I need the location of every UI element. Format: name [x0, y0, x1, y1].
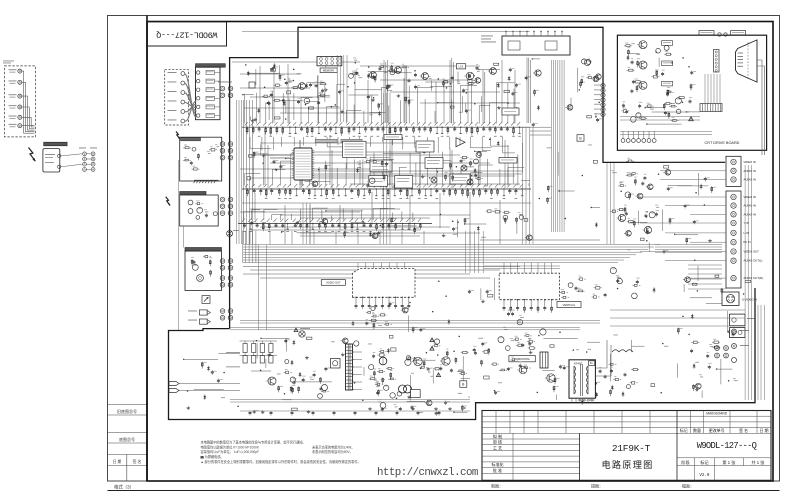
wire from jack J5	[22, 117, 35, 127]
AV jack group2 VIDEO IN	[731, 194, 736, 199]
filter box Z202	[384, 135, 402, 140]
op-amp N302	[456, 138, 465, 147]
AV jack group2 AUDIO IN	[731, 203, 736, 208]
top row cluster 2	[429, 77, 432, 80]
east-west cluster	[634, 284, 637, 286]
mixer symbol X2	[431, 177, 437, 183]
long vertical wires mid	[522, 127, 524, 244]
secondary rectifier cluster	[369, 364, 374, 369]
transistor V102	[395, 67, 402, 74]
AV jack J3	[18, 94, 22, 98]
RGB out label 3	[662, 81, 673, 86]
vertical section parts	[504, 328, 507, 331]
ext jack 2	[732, 344, 737, 349]
svg-text:AUDIO OUT(R): AUDIO OUT(R)	[744, 276, 763, 280]
cluster right of memory	[349, 73, 354, 78]
LCK label box	[456, 64, 465, 69]
svg-text:AUDIO IN: AUDIO IN	[744, 212, 756, 216]
svg-text:本电路图中的数值仅为了基本电路的改良与专用设计变更，恕不另行: 本电路图中的数值仅为了基本电路的改良与专用设计变更，恕不另行通知。	[201, 440, 306, 445]
AC input plug 1	[169, 382, 179, 386]
CRT amp input cluster 1	[626, 45, 630, 47]
AV area feed wires	[640, 196, 726, 198]
ladder row1 risers	[243, 94, 245, 124]
svg-text:VIDEO IN: VIDEO IN	[744, 160, 756, 164]
component ladder row 1 (IF/video bus)	[242, 126, 530, 128]
svg-text:幅面：: 幅面：	[682, 483, 694, 489]
AV sub jack 5	[181, 110, 185, 114]
audio amp pins	[355, 297, 357, 304]
horizontal interconnects	[232, 61, 360, 63]
block pin P3	[197, 88, 200, 91]
block pin P4	[197, 97, 200, 100]
posistor box	[411, 390, 421, 398]
board connector XS2/XP2	[220, 142, 225, 147]
SMPS transformer T801 body	[346, 344, 353, 390]
stage row line	[677, 457, 771, 459]
line filter caps row 2	[243, 356, 247, 364]
B+ boxed label 2	[460, 381, 467, 388]
filter box Z201	[343, 141, 366, 157]
T801 core lines	[347, 344, 349, 390]
svg-text:拟 制: 拟 制	[493, 433, 502, 439]
focus screen wires	[757, 60, 762, 155]
title block outer box	[482, 411, 771, 481]
svg-text:工 艺: 工 艺	[493, 445, 502, 450]
svg-text:阶段: 阶段	[681, 459, 690, 466]
safety triangle 3	[436, 373, 440, 377]
component ladder row 3	[238, 223, 432, 225]
svg-text:HORIZONTAL: HORIZONTAL	[514, 358, 531, 361]
box N306	[395, 176, 413, 189]
top bus wires	[242, 31, 530, 33]
speaker output connector	[730, 328, 746, 338]
delay line cluster	[462, 157, 466, 159]
VERTICAL label box	[557, 302, 581, 308]
degauss posistor circles	[399, 385, 407, 393]
AV buffer transistor V602	[644, 226, 651, 233]
wire from jack J1	[22, 71, 35, 133]
svg-text:容量值均以uF为单位。 1uF=1,000,000pF: 容量值均以uF为单位。 1uF=1,000,000pF	[201, 449, 260, 454]
ext jack 3	[732, 358, 737, 363]
power top rails	[230, 327, 580, 329]
svg-text:底图总号: 底图总号	[119, 436, 135, 442]
long vertical wires center	[258, 245, 260, 330]
CRT board lower cluster 1	[623, 110, 627, 113]
left vertical trunk wires	[236, 100, 238, 244]
component group tuner support	[537, 105, 539, 110]
component group AC inlet filter	[221, 396, 225, 399]
switcher transistor V801	[268, 377, 276, 385]
left strip tiny header label	[3, 60, 14, 63]
AV jack group2 AUDIO IN	[731, 212, 736, 217]
HORIZONTAL label box	[509, 356, 535, 362]
horizontal cluster parts	[505, 346, 510, 351]
regulator V803	[442, 357, 450, 365]
stage row lower line	[677, 465, 771, 467]
AV sub jack 2	[181, 81, 185, 85]
power bottom parts	[249, 411, 251, 413]
FBT primary winding	[573, 366, 575, 394]
svg-text:LCK: LCK	[459, 65, 464, 68]
svg-text:标记: 标记	[680, 427, 688, 433]
bottom distribution wires	[230, 399, 470, 401]
ladder row right cluster	[504, 217, 506, 224]
component group AV buffers	[663, 250, 665, 252]
svg-text:共 1 张: 共 1 张	[751, 459, 765, 466]
transit switch label 2	[731, 31, 746, 35]
svg-text:制图：: 制图：	[491, 483, 503, 489]
crt socket strip	[714, 50, 720, 73]
AUDIO OUT label box	[321, 280, 345, 286]
component group SMPS primary	[293, 340, 295, 345]
AV input dashed box (outside frame)	[4, 66, 35, 137]
CRT board bottom connector row	[621, 139, 625, 143]
svg-text:W9ODL-127---Q: W9ODL-127---Q	[697, 441, 757, 451]
top row cluster 3	[469, 83, 474, 85]
component group sub board 2	[215, 170, 218, 172]
CRT amp output resistor row 2	[653, 76, 657, 78]
title block main vertical divider	[676, 411, 678, 481]
long mid-band horizontal wires	[260, 142, 430, 144]
left margin row lines	[108, 404, 148, 406]
board connector XS6	[220, 309, 225, 314]
component group secondary filter	[468, 396, 470, 398]
power ground symbols	[369, 407, 371, 409]
power switch block body	[43, 149, 60, 172]
bridge rectifier cluster	[285, 360, 289, 364]
lightning surge symbol 3	[166, 197, 170, 206]
svg-text:签 名: 签 名	[739, 427, 748, 433]
ladder row3 risers	[243, 212, 245, 220]
svg-text:签 名: 签 名	[133, 459, 142, 464]
svg-text:描图：: 描图：	[591, 483, 603, 489]
CRT tube funnel	[736, 40, 758, 82]
svg-text:审 核: 审 核	[493, 439, 502, 445]
svg-text:电阻值均以欧姆为单位 K=1000 M=1000K: 电阻值均以欧姆为单位 K=1000 M=1000K	[201, 444, 260, 449]
transistor V103	[422, 73, 429, 80]
board connector XS4	[220, 259, 225, 264]
svg-text:AUDIO IN: AUDIO IN	[744, 204, 756, 208]
FBT pins bottom	[571, 398, 573, 403]
bottom format strip line	[108, 490, 780, 492]
flyback transformer AT402 outline	[569, 360, 595, 398]
svg-text:http://cnwxzl.com: http://cnwxzl.com	[377, 467, 478, 479]
yoke connector right	[715, 346, 720, 351]
AV jack group2 U IN	[731, 230, 736, 235]
revision table horizontal lines	[482, 415, 771, 417]
lightning surge symbol 2	[176, 132, 180, 139]
svg-text:电路原理图: 电路原理图	[602, 459, 654, 470]
component group video section	[348, 94, 378, 96]
svg-text:AUDIO OUT(L): AUDIO OUT(L)	[744, 259, 763, 263]
svg-text:AT402: AT402	[574, 362, 583, 366]
model number box top-left	[148, 22, 227, 46]
component group power entry	[205, 208, 209, 211]
svg-text:格式（3）: 格式（3）	[114, 484, 134, 491]
vertical interconnects rows	[259, 66, 261, 123]
box N304	[499, 158, 517, 164]
AV buffer cluster 1	[634, 179, 636, 186]
piezo speaker icon	[202, 296, 210, 304]
gray label strip 2	[341, 139, 362, 142]
memory IC VM1 AT04CM label	[320, 57, 334, 60]
hdrive transistor V401	[519, 366, 527, 374]
component group audio supply	[448, 319, 450, 324]
trunk wires into vertical block	[484, 265, 560, 267]
vertical IC pins	[503, 300, 505, 306]
fuse F801	[227, 231, 233, 237]
right trunk vertical wires	[606, 163, 608, 244]
left margin cell divider	[126, 455, 128, 482]
svg-text:标准化: 标准化	[491, 461, 503, 467]
AV jack group2 AUDIO OUT(R)	[731, 275, 736, 280]
block pin P1	[197, 71, 200, 74]
ext jack 1	[732, 329, 737, 334]
component group video amp	[451, 177, 453, 179]
optocoupler N801	[331, 359, 341, 369]
CRT amp input cluster 3	[631, 89, 633, 91]
screen lead	[595, 345, 611, 376]
right vertical bus to CRT	[551, 60, 553, 232]
AV jack group2 Y IN	[731, 220, 736, 225]
horizontal link wires upper	[530, 126, 551, 128]
component group mute switch	[494, 278, 496, 300]
component group sync section	[497, 83, 499, 88]
svg-text:AUDIO IN: AUDIO IN	[744, 178, 756, 182]
transit switch label 1	[699, 31, 714, 35]
svg-text:数量: 数量	[693, 427, 701, 433]
CRT amp input cluster 2	[637, 61, 639, 68]
svg-text:更改单号: 更改单号	[709, 427, 725, 433]
svg-text:CRT DRIVE BOARD: CRT DRIVE BOARD	[705, 141, 740, 145]
row3 drops to bus	[249, 231, 251, 244]
stage row dividers	[694, 458, 696, 481]
AV buffer transistor V601	[618, 214, 625, 221]
AV buffer cluster 2	[656, 206, 659, 209]
gray label strip 1	[315, 139, 337, 142]
shielded cable bundle	[185, 74, 197, 118]
CRT amp transistor V902	[639, 61, 647, 69]
CRT amp transistor V903	[639, 81, 647, 89]
power switch block label DSYG603738	[44, 142, 67, 146]
transistor V101	[370, 72, 377, 79]
safety triangle 1	[430, 338, 434, 342]
ladder row 2 lower bus	[242, 202, 531, 204]
AV group 2 connector shell	[726, 191, 741, 288]
block pin P2	[197, 79, 200, 82]
AV group 1 connector shell	[726, 156, 741, 186]
staff/name area right divider	[579, 433, 581, 480]
CRT tube neck electrodes	[738, 52, 744, 54]
CRT board lower cluster 2	[675, 98, 681, 104]
tuner label	[481, 35, 493, 38]
B+ label box on FBT	[589, 361, 595, 366]
wires sub-board to main	[178, 160, 180, 330]
transistor V201	[299, 83, 306, 90]
audio power amp N701 dashed outline	[353, 268, 416, 297]
AV jack group2 Pb IN	[731, 240, 736, 245]
svg-text:标记: 标记	[700, 459, 709, 466]
svg-text:VERTICAL: VERTICAL	[563, 303, 576, 307]
ladder row2 risers	[243, 173, 245, 185]
S-video connector	[722, 292, 739, 305]
power switch pin 1	[58, 154, 61, 157]
safety triangle cluster labels	[294, 328, 298, 332]
component group speaker board	[213, 281, 215, 283]
long vertical drop wires	[383, 60, 385, 123]
vert feed wires	[465, 231, 467, 273]
board connector XS3/XP3	[220, 197, 225, 202]
svg-text:第 1 张: 第 1 张	[722, 459, 736, 466]
hout snubber cluster	[604, 375, 606, 377]
feedback TL431 cluster	[397, 392, 402, 397]
sync cluster	[373, 161, 376, 163]
mid label box C	[502, 108, 519, 115]
lower right cluster	[710, 345, 714, 348]
sub board block body 2	[180, 137, 222, 181]
staff label column divider	[512, 433, 514, 480]
AV jack group2 VIDEO OUT	[731, 249, 736, 254]
cluster right of tuner	[581, 79, 583, 86]
transit jumper circles	[718, 33, 721, 36]
speaker plug 1	[199, 310, 207, 315]
power switch pin 2	[58, 165, 61, 168]
optocoupler N802	[322, 385, 328, 391]
FBT core	[580, 364, 582, 396]
component ladder row 2 (chroma bus)	[242, 188, 531, 190]
right area wires 2	[688, 264, 722, 266]
mid horizontal wires	[312, 170, 522, 172]
svg-text:AUDIO OUT: AUDIO OUT	[326, 281, 341, 285]
RGB out label 2	[662, 61, 673, 66]
degauss coil symbol	[197, 275, 204, 282]
CRT board ground symbol	[689, 117, 694, 121]
board connector XS5	[220, 276, 225, 281]
power entry block body	[180, 195, 219, 226]
speaker block body	[185, 251, 222, 290]
hout transistor V402	[547, 374, 555, 382]
AV sub jack 1	[181, 72, 185, 76]
component group AV input filters	[665, 170, 671, 176]
safety triangle 2	[430, 346, 434, 350]
main board outline left/top	[230, 27, 725, 328]
block pin P6	[197, 114, 200, 117]
bus bundle right extension	[655, 243, 722, 245]
transistor V104	[466, 72, 474, 80]
T801 windings	[346, 346, 353, 348]
regulator clusters	[434, 345, 437, 347]
lightning surge symbol left	[29, 148, 36, 162]
fuse symbol F802	[299, 331, 305, 337]
svg-text:MEMORY: MEMORY	[323, 68, 335, 72]
drawing sheet outer border	[108, 16, 780, 482]
tuner box	[502, 36, 570, 55]
svg-text:旧底图总号: 旧底图总号	[117, 408, 137, 414]
bus bundle vertical risers	[241, 231, 243, 263]
AV jack group1 VIDEO IN	[731, 159, 736, 164]
AV sub jack 4	[181, 100, 185, 104]
power entry block DSYG603739 label	[180, 192, 206, 196]
AV jack group2 AUDIO OUT(L)	[731, 258, 736, 263]
AV sub jack 6	[181, 119, 185, 123]
component group deflection out	[611, 385, 613, 390]
connector block DSYG603706 label	[196, 64, 226, 67]
audio box N301	[416, 141, 434, 152]
AV jack group1 AUDIO IN	[731, 168, 736, 173]
svg-text:日 期: 日 期	[113, 459, 122, 464]
B+ boxed label	[577, 135, 584, 142]
CRT drive board outline	[617, 35, 766, 150]
component group sound trap	[296, 221, 298, 223]
vertical section parts right	[568, 283, 573, 288]
svg-text:日 期: 日 期	[759, 427, 768, 433]
AC inlet pin 2	[188, 209, 193, 214]
mid label box A	[370, 160, 392, 172]
inner drawing frame	[147, 22, 773, 482]
memory label box HCHO01	[320, 68, 337, 73]
CRT heater comb	[700, 104, 722, 112]
ladder row1 drops	[249, 137, 251, 149]
CRT board wires to socket	[704, 74, 706, 103]
CRT amp output resistor row 3	[667, 92, 669, 94]
yoke coil symbols	[612, 350, 619, 352]
power bottom rail	[240, 410, 470, 412]
center trunk vertical	[302, 203, 304, 244]
wire from jack J6	[22, 124, 35, 126]
component group line output	[587, 341, 600, 343]
snubber diode D802	[299, 372, 301, 377]
wire from jack J2	[22, 82, 35, 131]
transistor V105	[490, 68, 497, 75]
component group output jacks wiring	[721, 288, 723, 295]
svg-text:AUDIO IN: AUDIO IN	[744, 169, 756, 173]
T801 secondary taps	[352, 351, 354, 353]
AV jack J4	[18, 105, 22, 109]
svg-text:W9ODL-127---Q: W9ODL-127---Q	[156, 30, 217, 40]
hdrive transformer T401	[540, 352, 548, 368]
block2 earth hatching	[194, 180, 196, 183]
component group AV switch	[524, 219, 528, 222]
vertical IC N402 LA7840 label	[519, 274, 544, 277]
wire from jack J3	[22, 96, 35, 130]
component group RGB feed	[593, 76, 599, 82]
left connector grid circles	[83, 152, 87, 156]
audio amp lower parts	[371, 319, 376, 321]
box N303	[425, 158, 443, 169]
N402 risers to bus	[503, 263, 505, 274]
N701 risers to bus	[357, 263, 359, 269]
long wires audio-vertical link	[243, 266, 520, 268]
right wires horizontal lower	[610, 309, 745, 311]
snubber diode D801	[291, 360, 293, 365]
AV jack J5	[18, 115, 22, 119]
AC input plug 2	[169, 389, 179, 393]
right edge vertical wires	[744, 165, 746, 400]
svg-text:S-VIDEO IN: S-VIDEO IN	[742, 298, 757, 302]
center vertical bundle	[243, 100, 245, 244]
component group CRT feed	[588, 144, 592, 147]
AV jack J2	[18, 80, 22, 84]
connector block DSYG603706 body	[196, 67, 221, 120]
CRT board inner rails	[620, 131, 712, 133]
left staff rows	[482, 438, 580, 440]
svg-text:批 准: 批 准	[493, 467, 502, 473]
speaker plug 2	[199, 319, 207, 324]
small box part	[249, 82, 255, 88]
svg-text:▆ 为屏蔽电线。: ▆ 为屏蔽电线。	[201, 454, 224, 459]
wire from jack J4	[22, 107, 35, 129]
AV jack J6	[18, 124, 22, 128]
